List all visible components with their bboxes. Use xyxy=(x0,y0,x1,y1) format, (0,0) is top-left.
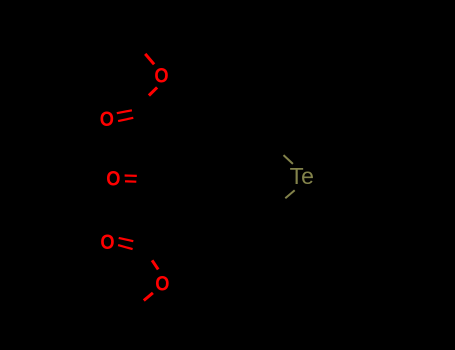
svg-text:O: O xyxy=(154,65,168,88)
bottom ester: bond O5-CH2 half segment xyxy=(144,293,153,301)
top ester: bond O2-CH2 half segment xyxy=(145,54,154,64)
top ester: bond C1-O2 half segment xyxy=(149,87,157,95)
bottom ester: C=O double bond upper line xyxy=(119,238,134,241)
svg-text:O: O xyxy=(100,108,114,131)
svg-text:Te: Te xyxy=(290,163,314,189)
bottom ester: bond C2-O5 half segment xyxy=(152,260,158,269)
top ester: C=O double bond upper line xyxy=(117,110,132,113)
svg-text:O: O xyxy=(100,231,114,254)
bottom ester: C=O double bond lower line xyxy=(118,245,133,249)
ketone: C=O double bond lower line xyxy=(125,180,136,183)
tellurium: bond C-Te lower half segment xyxy=(285,190,294,198)
top ester: C=O double bond lower line xyxy=(118,118,133,121)
svg-text:O: O xyxy=(155,272,169,295)
tellurium: bond C-Te upper half segment xyxy=(284,155,293,164)
ketone: C=O double bond upper line xyxy=(125,174,137,177)
svg-text:O: O xyxy=(106,167,120,190)
